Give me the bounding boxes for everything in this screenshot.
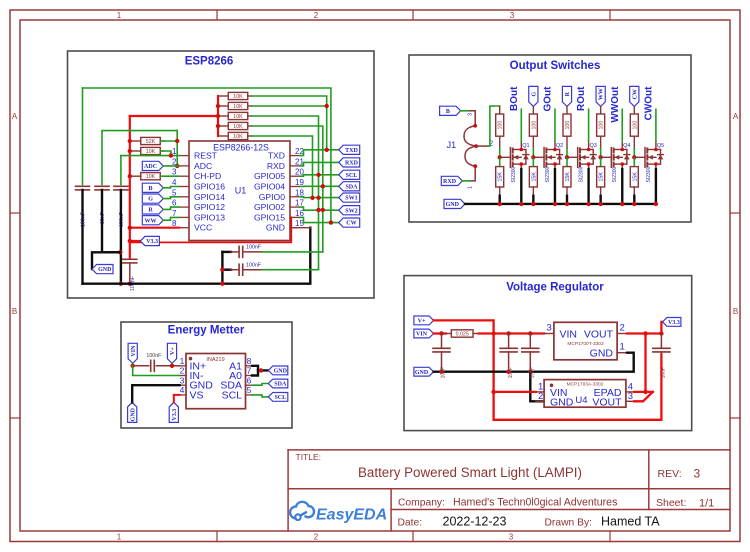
svg-text:GND: GND bbox=[98, 267, 112, 273]
svg-text:SI2300: SI2300 bbox=[545, 166, 551, 182]
svg-text:15K: 15K bbox=[632, 172, 638, 182]
svg-text:10K: 10K bbox=[146, 174, 156, 180]
svg-text:ESP8266-12S: ESP8266-12S bbox=[213, 142, 269, 152]
svg-text:Drawn By:: Drawn By: bbox=[545, 518, 593, 529]
svg-text:Hamed TA: Hamed TA bbox=[601, 515, 660, 529]
svg-text:1/1: 1/1 bbox=[699, 498, 714, 510]
svg-text:RXD: RXD bbox=[443, 179, 457, 185]
svg-text:MCP1700T-3302: MCP1700T-3302 bbox=[567, 341, 604, 347]
svg-text:TXD: TXD bbox=[345, 148, 358, 154]
svg-text:V3.3: V3.3 bbox=[172, 409, 178, 421]
svg-text:WW: WW bbox=[145, 218, 157, 224]
svg-text:3: 3 bbox=[547, 323, 552, 334]
svg-text:1: 1 bbox=[468, 186, 474, 189]
svg-text:3: 3 bbox=[509, 533, 514, 542]
svg-text:10K: 10K bbox=[233, 104, 243, 110]
svg-text:B: B bbox=[12, 307, 17, 316]
svg-text:10K: 10K bbox=[233, 124, 243, 130]
svg-text:10K: 10K bbox=[233, 94, 243, 100]
svg-text:Q4: Q4 bbox=[623, 143, 630, 149]
svg-text:Output Switches: Output Switches bbox=[510, 60, 601, 72]
svg-text:SW1: SW1 bbox=[345, 196, 357, 202]
svg-text:100nF: 100nF bbox=[246, 263, 262, 269]
svg-text:100: 100 bbox=[531, 121, 537, 130]
svg-text:2: 2 bbox=[538, 391, 543, 402]
svg-text:G: G bbox=[531, 91, 537, 96]
svg-text:5: 5 bbox=[172, 188, 177, 197]
svg-text:V3.3: V3.3 bbox=[668, 320, 680, 326]
svg-text:GPIO12: GPIO12 bbox=[194, 202, 225, 212]
svg-text:52K: 52K bbox=[146, 139, 156, 145]
svg-text:B: B bbox=[149, 186, 153, 192]
svg-text:10K: 10K bbox=[233, 134, 243, 140]
svg-text:10uF: 10uF bbox=[530, 367, 536, 378]
svg-text:5: 5 bbox=[247, 385, 252, 395]
svg-text:GND: GND bbox=[590, 347, 614, 359]
svg-text:SCL: SCL bbox=[222, 389, 243, 401]
svg-text:GPIO16: GPIO16 bbox=[194, 182, 225, 192]
svg-text:VS: VS bbox=[190, 389, 204, 401]
svg-text:8: 8 bbox=[247, 356, 252, 366]
svg-text:SDA: SDA bbox=[274, 382, 287, 388]
svg-text:REV:: REV: bbox=[658, 468, 682, 480]
svg-text:SI2300: SI2300 bbox=[579, 166, 585, 182]
svg-text:3: 3 bbox=[172, 168, 177, 177]
svg-text:Hamed's Techn0l0gical Adventur: Hamed's Techn0l0gical Adventures bbox=[453, 497, 617, 509]
svg-text:GOut: GOut bbox=[543, 86, 554, 112]
svg-text:GPIO02: GPIO02 bbox=[254, 202, 285, 212]
svg-text:VIN: VIN bbox=[416, 332, 428, 338]
svg-text:ESP8266: ESP8266 bbox=[185, 56, 234, 68]
svg-text:V+: V+ bbox=[170, 347, 176, 355]
svg-text:GND: GND bbox=[266, 223, 285, 233]
svg-text:ADC: ADC bbox=[144, 164, 157, 170]
svg-text:GPIO15: GPIO15 bbox=[254, 212, 285, 222]
svg-text:15K: 15K bbox=[531, 172, 537, 182]
svg-text:Sheet:: Sheet: bbox=[656, 497, 686, 509]
svg-text:GND: GND bbox=[130, 407, 136, 421]
svg-text:Voltage Regulator: Voltage Regulator bbox=[506, 282, 604, 294]
svg-text:GPIO05: GPIO05 bbox=[254, 171, 285, 181]
svg-text:TXD: TXD bbox=[268, 151, 285, 161]
svg-text:GND: GND bbox=[446, 202, 460, 208]
svg-text:100: 100 bbox=[632, 121, 638, 130]
svg-text:A: A bbox=[12, 112, 18, 121]
svg-text:TITLE:: TITLE: bbox=[296, 452, 322, 462]
svg-text:ROut: ROut bbox=[576, 86, 587, 111]
svg-text:VOUT: VOUT bbox=[592, 396, 622, 408]
svg-text:100: 100 bbox=[565, 121, 571, 130]
svg-text:SW2: SW2 bbox=[345, 208, 357, 214]
svg-text:GPIO0: GPIO0 bbox=[259, 192, 285, 202]
svg-text:10uF: 10uF bbox=[661, 367, 667, 378]
svg-text:15K: 15K bbox=[565, 172, 571, 182]
svg-text:CW: CW bbox=[632, 89, 638, 99]
svg-text:INA219: INA219 bbox=[206, 357, 224, 363]
svg-text:CW: CW bbox=[346, 221, 356, 227]
svg-text:SI2300: SI2300 bbox=[612, 166, 618, 182]
svg-text:SCL: SCL bbox=[274, 395, 286, 401]
svg-text:VIN: VIN bbox=[131, 345, 137, 357]
svg-text:SCL: SCL bbox=[346, 173, 358, 179]
svg-text:100nF: 100nF bbox=[246, 245, 262, 251]
svg-text:VOUT: VOUT bbox=[584, 328, 614, 340]
svg-text:2: 2 bbox=[620, 323, 625, 334]
svg-text:Q3: Q3 bbox=[590, 143, 597, 149]
svg-text:CWOut: CWOut bbox=[644, 86, 655, 121]
svg-text:SDA: SDA bbox=[345, 184, 358, 190]
svg-text:Battery Powered Smart Light (L: Battery Powered Smart Light (LAMPI) bbox=[358, 465, 582, 480]
svg-text:G: G bbox=[148, 197, 153, 203]
svg-text:J1: J1 bbox=[447, 140, 457, 150]
svg-text:100: 100 bbox=[498, 121, 504, 130]
svg-text:ADC: ADC bbox=[194, 161, 212, 171]
svg-text:10uF: 10uF bbox=[508, 367, 514, 378]
svg-text:4: 4 bbox=[180, 385, 185, 395]
svg-text:100nF: 100nF bbox=[146, 353, 162, 359]
svg-text:7: 7 bbox=[172, 209, 177, 218]
svg-text:GPIO14: GPIO14 bbox=[194, 192, 225, 202]
svg-text:Q1: Q1 bbox=[522, 143, 529, 149]
svg-text:3: 3 bbox=[180, 375, 185, 385]
svg-text:EasyEDA: EasyEDA bbox=[316, 507, 387, 524]
svg-text:R: R bbox=[565, 91, 571, 96]
svg-text:3: 3 bbox=[694, 467, 701, 481]
svg-text:1: 1 bbox=[117, 11, 122, 20]
svg-text:GND: GND bbox=[550, 396, 574, 408]
svg-text:VIN: VIN bbox=[560, 328, 578, 340]
svg-text:Q2: Q2 bbox=[556, 143, 563, 149]
svg-text:REST: REST bbox=[194, 151, 218, 161]
svg-text:100: 100 bbox=[599, 121, 605, 130]
svg-text:6: 6 bbox=[172, 199, 177, 208]
svg-text:Company:: Company: bbox=[398, 498, 445, 509]
svg-text:MCP1703A-3302: MCP1703A-3302 bbox=[567, 381, 604, 387]
svg-text:3: 3 bbox=[628, 391, 633, 402]
svg-text:2: 2 bbox=[314, 533, 319, 542]
svg-text:RXD: RXD bbox=[345, 161, 359, 167]
svg-text:7: 7 bbox=[247, 366, 252, 376]
svg-text:GND: GND bbox=[415, 370, 429, 376]
svg-text:1: 1 bbox=[620, 342, 625, 353]
svg-text:WW: WW bbox=[599, 88, 605, 100]
svg-text:V3.3: V3.3 bbox=[146, 239, 158, 245]
svg-text:0.025: 0.025 bbox=[456, 331, 469, 337]
svg-text:CH-PD: CH-PD bbox=[194, 171, 221, 181]
svg-text:WWOut: WWOut bbox=[610, 86, 621, 123]
svg-text:10uF: 10uF bbox=[441, 367, 447, 378]
svg-text:3: 3 bbox=[510, 11, 515, 20]
svg-text:Energy Metter: Energy Metter bbox=[168, 325, 245, 337]
svg-text:1: 1 bbox=[180, 356, 185, 366]
svg-text:R: R bbox=[148, 208, 153, 214]
svg-text:1: 1 bbox=[117, 533, 122, 542]
svg-text:17: 17 bbox=[295, 199, 304, 208]
svg-text:B: B bbox=[733, 307, 738, 316]
svg-text:2022-12-23: 2022-12-23 bbox=[443, 515, 507, 529]
svg-text:10K: 10K bbox=[233, 114, 243, 120]
svg-text:6: 6 bbox=[247, 375, 252, 385]
svg-text:GND: GND bbox=[274, 369, 288, 375]
svg-text:10K: 10K bbox=[146, 149, 156, 155]
svg-text:4: 4 bbox=[172, 178, 177, 187]
svg-text:SI2300: SI2300 bbox=[511, 166, 517, 182]
svg-text:18: 18 bbox=[295, 188, 304, 197]
svg-text:RXD: RXD bbox=[267, 161, 285, 171]
svg-text:U1: U1 bbox=[235, 186, 247, 196]
svg-text:U4: U4 bbox=[575, 395, 587, 406]
svg-text:3: 3 bbox=[468, 113, 474, 116]
svg-text:V+: V+ bbox=[418, 319, 426, 325]
svg-text:2: 2 bbox=[180, 366, 185, 376]
svg-text:BOut: BOut bbox=[509, 86, 520, 111]
svg-text:Q5: Q5 bbox=[657, 143, 664, 149]
svg-text:A: A bbox=[733, 112, 739, 121]
svg-text:B: B bbox=[446, 109, 450, 115]
svg-text:GPIO04: GPIO04 bbox=[254, 182, 285, 192]
svg-text:Date:: Date: bbox=[398, 518, 423, 529]
svg-text:GPIO13: GPIO13 bbox=[194, 212, 225, 222]
svg-text:15K: 15K bbox=[498, 172, 504, 182]
svg-text:SI2300: SI2300 bbox=[646, 166, 652, 182]
svg-text:2: 2 bbox=[314, 11, 319, 20]
svg-text:15K: 15K bbox=[599, 172, 605, 182]
svg-text:VCC: VCC bbox=[194, 223, 212, 233]
